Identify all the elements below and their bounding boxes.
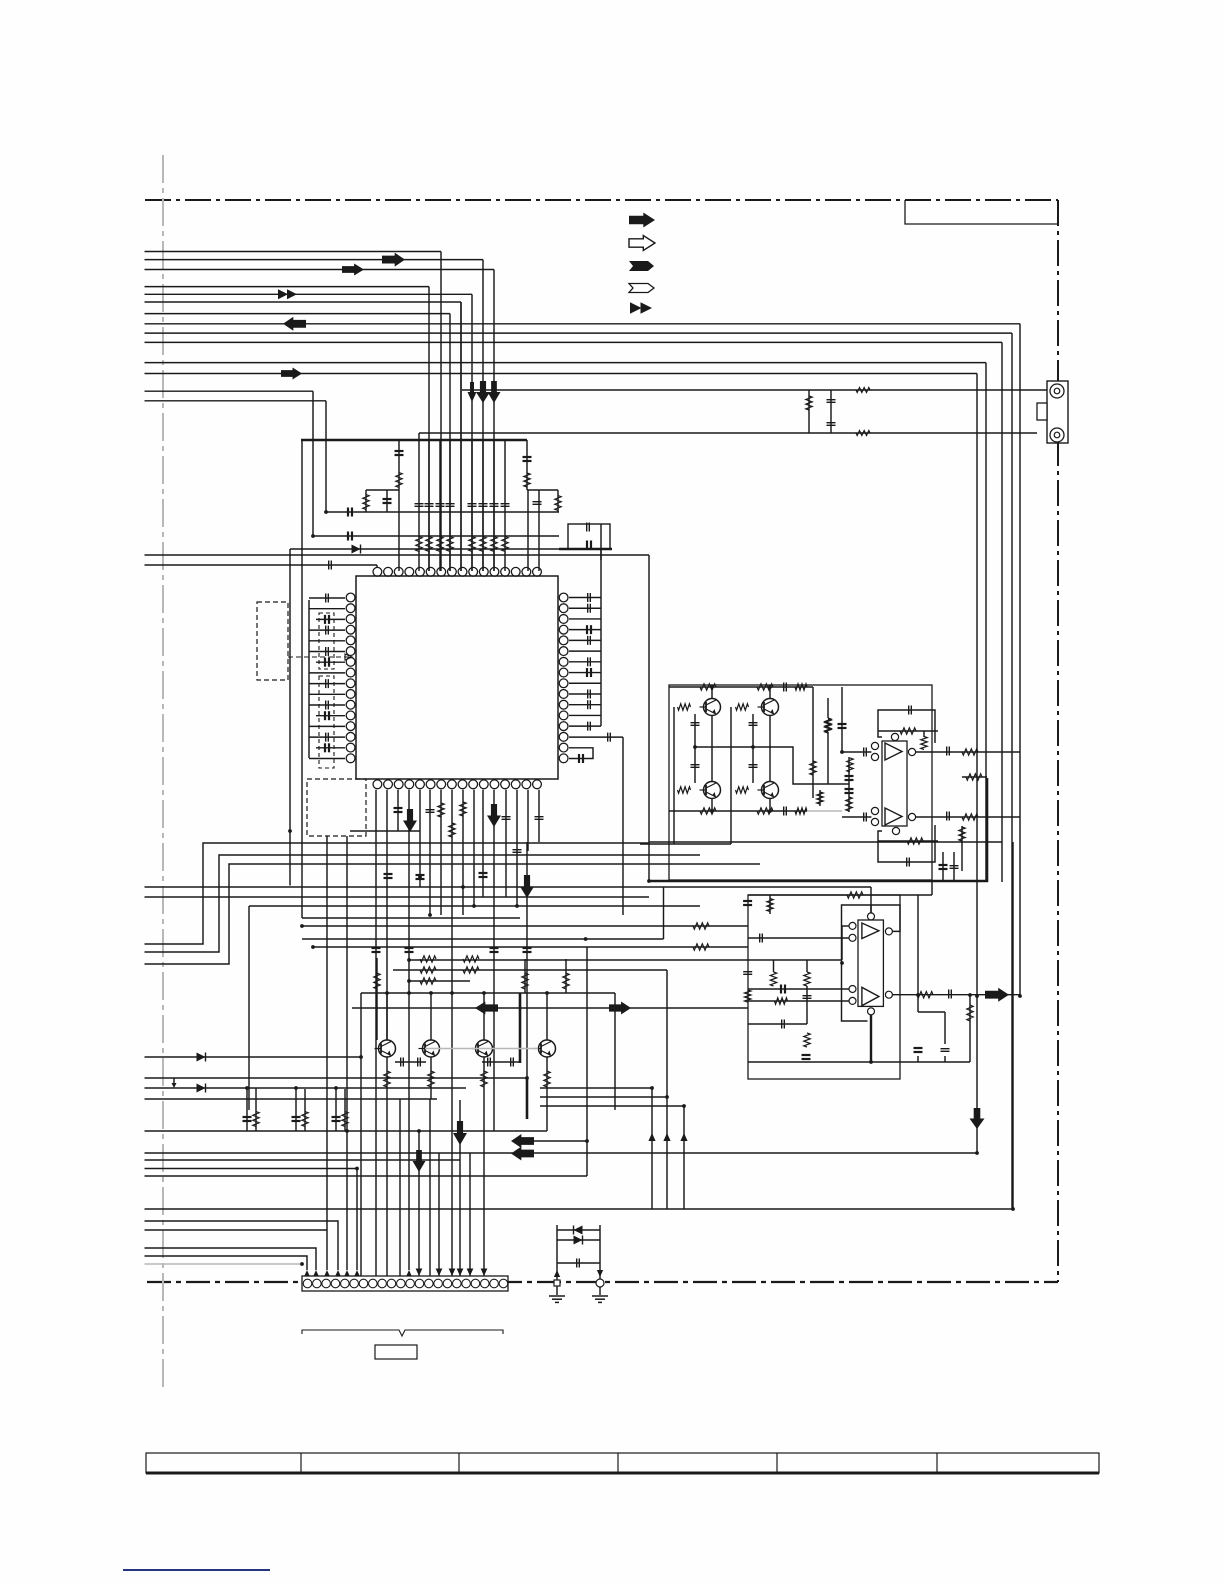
thick wire segment y549: [559, 548, 612, 550]
transistor Q4: [762, 782, 779, 799]
arrow pair wire y1008: [352, 1007, 748, 1009]
wire bus L5 with double triangle arrow: [145, 293, 473, 295]
wire bus y1176: [145, 1175, 588, 1177]
thick vertical x520: [519, 993, 522, 1063]
wire y390 to jack: [462, 389, 1047, 391]
wire bus L7: [145, 313, 451, 315]
legend signal arrow solid: [629, 213, 655, 228]
caps quad: [691, 722, 700, 724]
wire bus L12 with arrow: [145, 373, 978, 375]
wire bus y1209 long: [145, 1208, 1014, 1210]
left arrow wires mid-bottom: [533, 1140, 587, 1142]
wire bus L10: [145, 341, 1003, 343]
thick vertical right of opamp: [986, 778, 989, 882]
U1A feedback loop: [878, 710, 935, 743]
mid wire quad: [694, 747, 849, 784]
thick rail y881: [649, 880, 988, 883]
wire y433 to jack: [419, 432, 1037, 434]
legend pennant solid: [629, 261, 654, 271]
caps to rail: [939, 864, 948, 866]
wire bus y1153: [145, 1152, 978, 1154]
opamp U1A: [885, 743, 902, 760]
vertical resistors mid: [374, 973, 380, 989]
base resistors quad: [678, 704, 691, 710]
RC group 2: [295, 1089, 297, 1131]
legend pennant outline: [629, 284, 654, 293]
transistor Q7: [476, 1040, 493, 1057]
right column verticals: [1012, 842, 1014, 1209]
down arrow x460: [459, 1100, 461, 1276]
U1 input components: [842, 751, 871, 753]
transistor Q6: [423, 1040, 440, 1057]
U2A feedback loop: [842, 905, 901, 1021]
IC main QFP body: [356, 576, 558, 779]
wire bus y1248: [145, 1248, 317, 1270]
RC group 3: [335, 1089, 337, 1131]
board boundary dash-dot top edge: [145, 199, 1058, 201]
brace under connector: [302, 1330, 503, 1336]
transistor Q2: [762, 699, 779, 716]
bypass caps left of IC: [308, 600, 310, 758]
quad transistor block box: [669, 685, 932, 880]
dashed box below-left of IC: [307, 779, 366, 836]
U1B feedback loop: [878, 825, 935, 862]
wire y897: [145, 896, 650, 898]
board boundary dash-dot right edge: [1057, 200, 1059, 1282]
right RC sub-network above IC: [526, 440, 528, 490]
terminal circle: [596, 1279, 604, 1287]
dashed link wire: [288, 656, 352, 658]
wire bus L13: [145, 390, 314, 392]
thick wire segment x527: [526, 1077, 529, 1119]
ground symbol 1: [556, 1286, 558, 1295]
transistor Q5: [379, 1040, 396, 1057]
wire bus L8 with left arrow: [145, 323, 1021, 325]
RCA jack connector: [1047, 381, 1068, 443]
right verticals quad: [812, 687, 814, 798]
staircase wire S3: [145, 864, 761, 964]
wire y918: [302, 917, 520, 919]
wire y926 with resistor: [302, 925, 748, 927]
wire bus L14: [145, 400, 327, 402]
opamp U2A: [862, 923, 879, 939]
wire y947 with resistor: [313, 946, 748, 948]
footer link line: [123, 1569, 270, 1571]
wire bus y1259: [145, 1256, 308, 1270]
down arrow right column: [970, 1108, 985, 1129]
U2 bottom thick wire: [870, 1015, 872, 1062]
U1 outputs: [916, 751, 1020, 753]
transistor Q1: [704, 699, 721, 716]
junction dots: [584, 937, 588, 941]
caps to rail right: [917, 895, 919, 1012]
wire bus y1100: [145, 1098, 438, 1100]
wire bus L11: [145, 362, 987, 364]
wire into IC y536 with capacitor: [313, 535, 559, 537]
transistor Q8: [539, 1040, 556, 1057]
RC filter on jack lines: [808, 390, 810, 433]
opamp U1 body: [882, 741, 907, 826]
legend signal arrow outline: [629, 236, 655, 251]
RC group 1: [246, 1088, 248, 1131]
dashed box left caps 1: [319, 613, 334, 669]
signal flow arrows down on columns: [468, 382, 477, 402]
U2 outputs: [892, 994, 1020, 996]
IC bottom pins: [373, 780, 382, 789]
wire bus L9: [145, 332, 1013, 334]
wire bus y555: [145, 554, 650, 556]
opamp U2B: [862, 987, 879, 1005]
up arrow columns x652 x667 x684: [651, 1088, 653, 1209]
wire bus L4: [145, 286, 430, 288]
down arrow x527: [526, 842, 528, 1077]
U2 pin circles: [849, 922, 856, 929]
wire bus y1131: [145, 1130, 548, 1132]
wire y549 with diode: [290, 548, 559, 550]
wire bus L6: [145, 301, 462, 303]
transistor row wiring: [386, 993, 388, 1040]
board boundary tab box top right: [905, 200, 1058, 224]
wire bus L1: [145, 251, 442, 253]
connector feed x327: [326, 836, 328, 1270]
collector wires quad: [711, 687, 713, 699]
vertical wire x587: [586, 947, 588, 1141]
IC left pins: [346, 593, 355, 602]
wire bus y1078: [145, 1077, 528, 1079]
U2 lower components: [748, 1023, 807, 1025]
block box around transistors: [361, 992, 615, 994]
caps row y950: [372, 947, 381, 949]
decoupling columns above IC: [418, 433, 420, 571]
wire bus y1057 with diode: [145, 1056, 362, 1058]
transistor Q3: [704, 782, 721, 799]
down arrow x419: [418, 1131, 420, 1276]
staircase wire S2: [145, 855, 701, 952]
wire y831: [350, 830, 420, 832]
components below IC row1: [394, 807, 403, 809]
right pins 15 16 loop cap: [569, 748, 593, 759]
connector CN bottom strip: [302, 1276, 508, 1291]
staircase wire S1: [145, 843, 650, 944]
block 2 rail stub: [748, 894, 932, 896]
U2 mid resistors caps: [770, 972, 776, 986]
wire bus y565 with capacitor: [145, 564, 378, 566]
wire y887: [145, 886, 872, 888]
power rail thick: [301, 439, 527, 442]
wire into IC y512 with capacitor: [326, 511, 559, 513]
dashed box far left option: [257, 602, 288, 680]
opamp pin circles: [871, 742, 878, 749]
left RC sub-network above IC: [398, 440, 400, 571]
emitter resistors: [384, 1071, 390, 1087]
table revision block: [146, 1453, 1099, 1473]
IC bottom pin columns: [375, 790, 377, 1276]
block 2 outer box: [748, 895, 900, 1079]
wire bus y1230: [145, 1229, 328, 1231]
legend double triangle arrow: [630, 302, 642, 314]
resistor cluster rows: [409, 959, 748, 961]
staircase wire S6: [249, 905, 700, 907]
wire y842 right: [649, 841, 1002, 843]
fold line gray dash-dot left: [162, 155, 164, 1390]
dashed box left caps 2: [319, 676, 334, 768]
wire bus y1160: [145, 1159, 461, 1161]
center column: [460, 302, 462, 571]
ground symbol 2: [599, 1287, 601, 1295]
wire bus L2 with arrow: [145, 259, 484, 261]
connector feed x347: [346, 836, 348, 1270]
gray wire y1267: [145, 1263, 303, 1265]
terminal square: [554, 1280, 560, 1286]
wire bus L3 with arrow: [145, 269, 495, 271]
vertical wire x290: [289, 549, 291, 886]
protection diode box: [556, 1225, 558, 1283]
wire bus y1167: [145, 1168, 358, 1170]
coupling caps between transistors: [400, 1058, 402, 1067]
bypass caps right of IC: [600, 524, 602, 726]
U2 left input components: [769, 895, 771, 914]
IC top pins: [373, 567, 382, 576]
top rail with resistors: [669, 686, 813, 688]
components below IC row2: [384, 873, 393, 875]
label box under connector: [375, 1345, 417, 1359]
gray wire into opamp: [807, 810, 842, 812]
wire bus y1222: [145, 1221, 339, 1270]
IC right pins: [559, 593, 568, 602]
opamp U2 body: [858, 920, 883, 1006]
gray link wire transistor bases: [425, 1048, 538, 1050]
bottom rail with resistors: [669, 810, 807, 812]
vertical wire x302 main: [301, 440, 303, 918]
opamp U1B: [885, 808, 902, 825]
crystal box: [568, 524, 610, 549]
wire bus y1089 with diode: [145, 1087, 467, 1089]
wire y939 corner: [302, 938, 664, 940]
board boundary dash-dot bottom edge: [147, 1281, 1058, 1283]
right pin 14 cap and long vertical: [569, 736, 623, 738]
